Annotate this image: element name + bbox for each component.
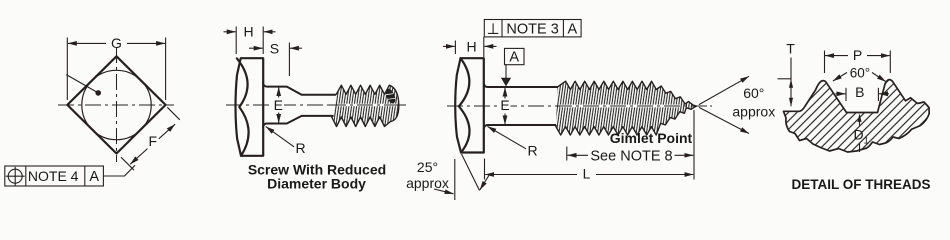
svg-text:60°: 60° bbox=[850, 66, 870, 81]
dimension E (bolt 3) arrow up bbox=[504, 88, 506, 99]
dimension E (bolt 3) arrow down bbox=[504, 114, 506, 125]
bolt 3 centerline over threads bbox=[560, 105, 680, 108]
svg-text:P: P bbox=[853, 47, 862, 63]
bolt 2 head facet line bbox=[237, 58, 249, 155]
25 degree leader arrow right bbox=[480, 175, 490, 190]
bolt 3 threaded portion with gimlet point outline bbox=[556, 81, 697, 135]
bolt 2 square head side view bbox=[236, 58, 264, 156]
dimension L arrow left bbox=[485, 174, 577, 176]
bolt 3 body bottom edge bbox=[484, 125, 556, 129]
svg-text:S: S bbox=[270, 40, 279, 56]
svg-text:Gimlet Point: Gimlet Point bbox=[610, 130, 693, 146]
dimension H (bolt 2) extension left bbox=[235, 27, 237, 55]
fillet radius R leader (bolt 3) bbox=[488, 126, 527, 148]
svg-text:A: A bbox=[89, 169, 99, 185]
svg-text:A: A bbox=[509, 50, 519, 66]
dimension H (bolt 2) arrow left bbox=[224, 31, 236, 33]
dimension F arrow upper bbox=[159, 124, 175, 139]
See NOTE 8 arrow left bbox=[568, 154, 589, 156]
dimension P arrow left bbox=[825, 55, 848, 57]
svg-text:T: T bbox=[786, 41, 795, 57]
dimension F extension line lower (flat extended) bbox=[121, 157, 134, 170]
leader from NOTE 4 frame bbox=[103, 165, 135, 176]
dimension P arrow right bbox=[867, 55, 890, 57]
svg-text:NOTE 4: NOTE 4 bbox=[28, 168, 79, 184]
gimlet point 60 degree line lower bbox=[699, 107, 749, 133]
60 degree leader arrow left (detail) bbox=[833, 73, 847, 82]
frame connector line to head bbox=[483, 37, 485, 57]
bolt 2 threaded portion outline bbox=[332, 85, 399, 126]
bolt 3 square head side view bbox=[455, 58, 484, 152]
datum stem bbox=[505, 65, 507, 78]
svg-text:approx: approx bbox=[406, 175, 449, 191]
dimension B arrow left bbox=[836, 93, 846, 95]
dimension E (bolt 2) arrow down bbox=[278, 113, 280, 124]
dimension F arrow lower bbox=[130, 149, 147, 165]
svg-text:60°: 60° bbox=[743, 85, 764, 101]
svg-text:1: 1 bbox=[864, 136, 869, 147]
feature control frame NOTE 3 bbox=[484, 20, 581, 37]
dimension S arrow left bbox=[249, 47, 263, 49]
25 degree reference vertical line bbox=[454, 159, 456, 200]
dimension H (bolt 3) extension left bbox=[454, 41, 456, 55]
bolt 2 body shoulder top edge bbox=[263, 83, 337, 95]
svg-text:NOTE 3: NOTE 3 bbox=[506, 21, 558, 37]
position symbol bbox=[8, 169, 22, 183]
dimension T crest extension line bbox=[778, 78, 792, 80]
inscribed circle (head chamfer circle) bbox=[82, 70, 151, 139]
svg-text:F: F bbox=[149, 133, 158, 149]
dimension H (bolt 3) arrow left bbox=[443, 45, 455, 47]
svg-text:L: L bbox=[583, 166, 591, 182]
dimension P extension right bbox=[889, 51, 891, 74]
dimension B extension bar left bbox=[845, 88, 847, 101]
svg-text:See NOTE 8: See NOTE 8 bbox=[590, 148, 672, 164]
dimension T line with arrows bbox=[790, 58, 792, 107]
svg-text:R: R bbox=[527, 143, 537, 159]
dimension G extension line right bbox=[165, 38, 167, 101]
gimlet point 60 degree line upper bbox=[699, 76, 749, 104]
svg-text:25°: 25° bbox=[417, 159, 438, 175]
svg-text:Diameter Body: Diameter Body bbox=[267, 176, 366, 192]
svg-text:G: G bbox=[111, 35, 122, 51]
datum feature symbol A box bbox=[505, 48, 525, 64]
bolt 3 head facet line bbox=[459, 58, 470, 152]
dimension S extension right bbox=[288, 43, 290, 77]
dimension E (bolt 3) label bbox=[499, 100, 511, 113]
bolt 3 body top edge bbox=[484, 83, 558, 87]
svg-text:approx: approx bbox=[732, 104, 775, 120]
bolt head end view: vertical centerline bbox=[116, 47, 118, 162]
dimension F extension line upper (flat extended) bbox=[167, 107, 180, 120]
thread detail cross-section blob bbox=[784, 80, 930, 152]
dimension E (bolt 2) label bbox=[273, 99, 285, 112]
svg-text:E: E bbox=[274, 97, 283, 113]
svg-text:R: R bbox=[295, 140, 305, 156]
svg-text:A: A bbox=[567, 21, 577, 37]
dimension G extension line left bbox=[66, 38, 68, 101]
surface leader line bbox=[66, 75, 98, 93]
See NOTE 8 arrow right bbox=[675, 154, 694, 156]
svg-text:D: D bbox=[854, 127, 864, 143]
dimension B arrow right bbox=[879, 93, 889, 95]
dimension L arrow right bbox=[596, 174, 693, 176]
svg-text:H: H bbox=[244, 23, 254, 39]
bolt head end view: horizontal centerline bbox=[58, 104, 174, 106]
dimension L extension right bbox=[693, 110, 695, 180]
dimension B extension bar right bbox=[877, 88, 879, 101]
perpendicularity symbol bbox=[488, 23, 498, 33]
See NOTE 8 left extension bbox=[566, 147, 568, 161]
dimension G arrow left bbox=[68, 42, 106, 44]
25 degree leader arrow left bbox=[434, 189, 454, 194]
dimension H (bolt 3) arrow right bbox=[484, 45, 496, 47]
dimension L extension left bbox=[484, 159, 486, 180]
dimension P extension left bbox=[824, 51, 826, 74]
feature control frame NOTE 4 box bbox=[5, 166, 104, 186]
dimension E (bolt 2) arrow up bbox=[278, 87, 280, 97]
dimension H (bolt 2) arrow right bbox=[264, 31, 276, 33]
bolt 2 centerline bbox=[226, 104, 406, 106]
svg-text:B: B bbox=[855, 84, 864, 100]
dimension G arrow right bbox=[127, 42, 165, 44]
25 degree chamfer slant line bbox=[462, 154, 480, 191]
datum solid triangle bbox=[501, 78, 511, 87]
bolt 2 centerline over threads bbox=[338, 104, 396, 106]
bolt 3 centerline bbox=[447, 105, 712, 107]
dimension D1 line with up arrow bbox=[859, 116, 861, 126]
bolt 2 thread end chamfer (dark section) bbox=[384, 87, 398, 105]
dimension H (bolt 2) extension right bbox=[262, 27, 264, 55]
dimension S arrow right bbox=[290, 47, 302, 49]
fillet radius R leader (bolt 2) bbox=[266, 127, 294, 147]
surface leader dot bbox=[95, 90, 101, 96]
svg-text:DETAIL OF THREADS: DETAIL OF THREADS bbox=[791, 177, 930, 192]
square head outline (rotated 45) bbox=[67, 56, 165, 153]
60 degree leader arrow right (detail) bbox=[872, 73, 886, 82]
bolt 2 body shoulder bottom edge bbox=[263, 116, 336, 127]
svg-text:H: H bbox=[466, 38, 476, 54]
svg-text:E: E bbox=[500, 97, 509, 113]
